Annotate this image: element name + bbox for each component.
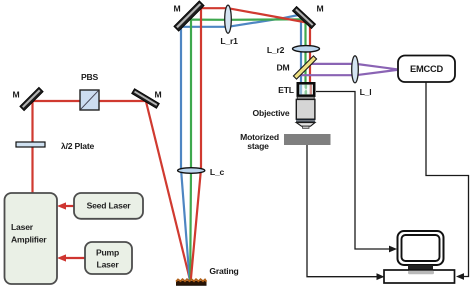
EMCCD camera box <box>398 56 455 83</box>
mirror M1 <box>20 87 43 110</box>
wire: red arrow Seed Laser to Laser Amplifier <box>65 205 74 207</box>
svg-text:L_r1: L_r1 <box>220 36 238 46</box>
mirror M4 <box>292 6 315 28</box>
svg-text:Amplifier: Amplifier <box>11 235 47 245</box>
svg-text:L_l: L_l <box>360 87 372 97</box>
svg-text:Laser: Laser <box>97 260 120 270</box>
wire: red beam M1 to PBS to M2 <box>31 100 147 102</box>
grating <box>176 279 207 285</box>
wire: red beam path M3 to L_r1 to M4 down <box>201 8 310 96</box>
wire: red arrow Pump Laser to Laser Amplifier <box>65 257 85 259</box>
pump laser box <box>85 242 132 274</box>
mirror M2 <box>132 89 160 109</box>
svg-text:EMCCD: EMCCD <box>410 64 444 74</box>
lens L_l <box>352 56 359 83</box>
svg-text:λ/2 Plate: λ/2 Plate <box>61 141 94 151</box>
dichroic mirror DM <box>293 56 316 79</box>
lens L_r2 <box>293 46 320 52</box>
seed laser box <box>74 193 143 219</box>
mirror M3 <box>174 1 204 31</box>
laser amplifier box <box>5 193 58 284</box>
svg-text:Pump: Pump <box>96 248 119 258</box>
svg-text:M: M <box>174 4 181 14</box>
svg-text:Grating: Grating <box>209 266 238 276</box>
lens L_c <box>178 168 205 174</box>
svg-text:L_r2: L_r2 <box>267 45 285 55</box>
half-wave plate <box>16 142 45 147</box>
beamsplitter PBS <box>80 90 99 110</box>
wire: blue beam M3 down through L_c to grating <box>181 27 190 281</box>
objective <box>296 97 315 129</box>
monitor <box>398 231 444 270</box>
svg-text:M: M <box>317 4 324 14</box>
wire: blue beam path M3 to L_r1 to M4 down <box>181 15 301 97</box>
svg-text:L_c: L_c <box>210 167 225 177</box>
svg-text:Laser: Laser <box>11 222 34 232</box>
svg-text:M: M <box>13 90 20 100</box>
svg-text:PBS: PBS <box>81 72 99 82</box>
svg-text:ETL: ETL <box>278 85 294 95</box>
motorized stage <box>284 134 331 145</box>
computer base / keyboard <box>384 270 455 283</box>
wire: arrowhead into monitor <box>389 246 397 253</box>
wire: red beam M2 slant to grating <box>146 100 191 281</box>
lens L_r1 <box>225 5 232 33</box>
svg-text:stage: stage <box>247 141 269 151</box>
wire: ETL control cable to monitor <box>316 92 390 250</box>
wire: green beam path M3 to L_r1 to M4 down <box>191 19 306 96</box>
svg-text:DM: DM <box>277 63 290 73</box>
wire: red beam M1 down through half-wave plate to amplifier <box>31 99 33 194</box>
svg-text:Objective: Objective <box>253 108 290 118</box>
wire: EMCCD cable to computer <box>426 82 469 277</box>
wire: purple emission beam upper from DM to L_l to EMCCD <box>306 64 397 69</box>
wire: arrowhead into computer left side <box>377 273 385 280</box>
svg-text:Seed Laser: Seed Laser <box>87 201 132 211</box>
wire: green beam M3 down through L_c to grating <box>189 20 192 281</box>
electrically tunable lens ETL <box>297 82 316 97</box>
wire: motorized stage cable to computer <box>307 145 377 277</box>
wire: red beam M3 down through L_c to grating <box>191 8 201 280</box>
wire: arrowhead into computer right side <box>456 273 464 280</box>
svg-text:M: M <box>155 90 162 100</box>
wire: purple emission beam lower from DM to L_l to EMCCD <box>297 70 397 75</box>
